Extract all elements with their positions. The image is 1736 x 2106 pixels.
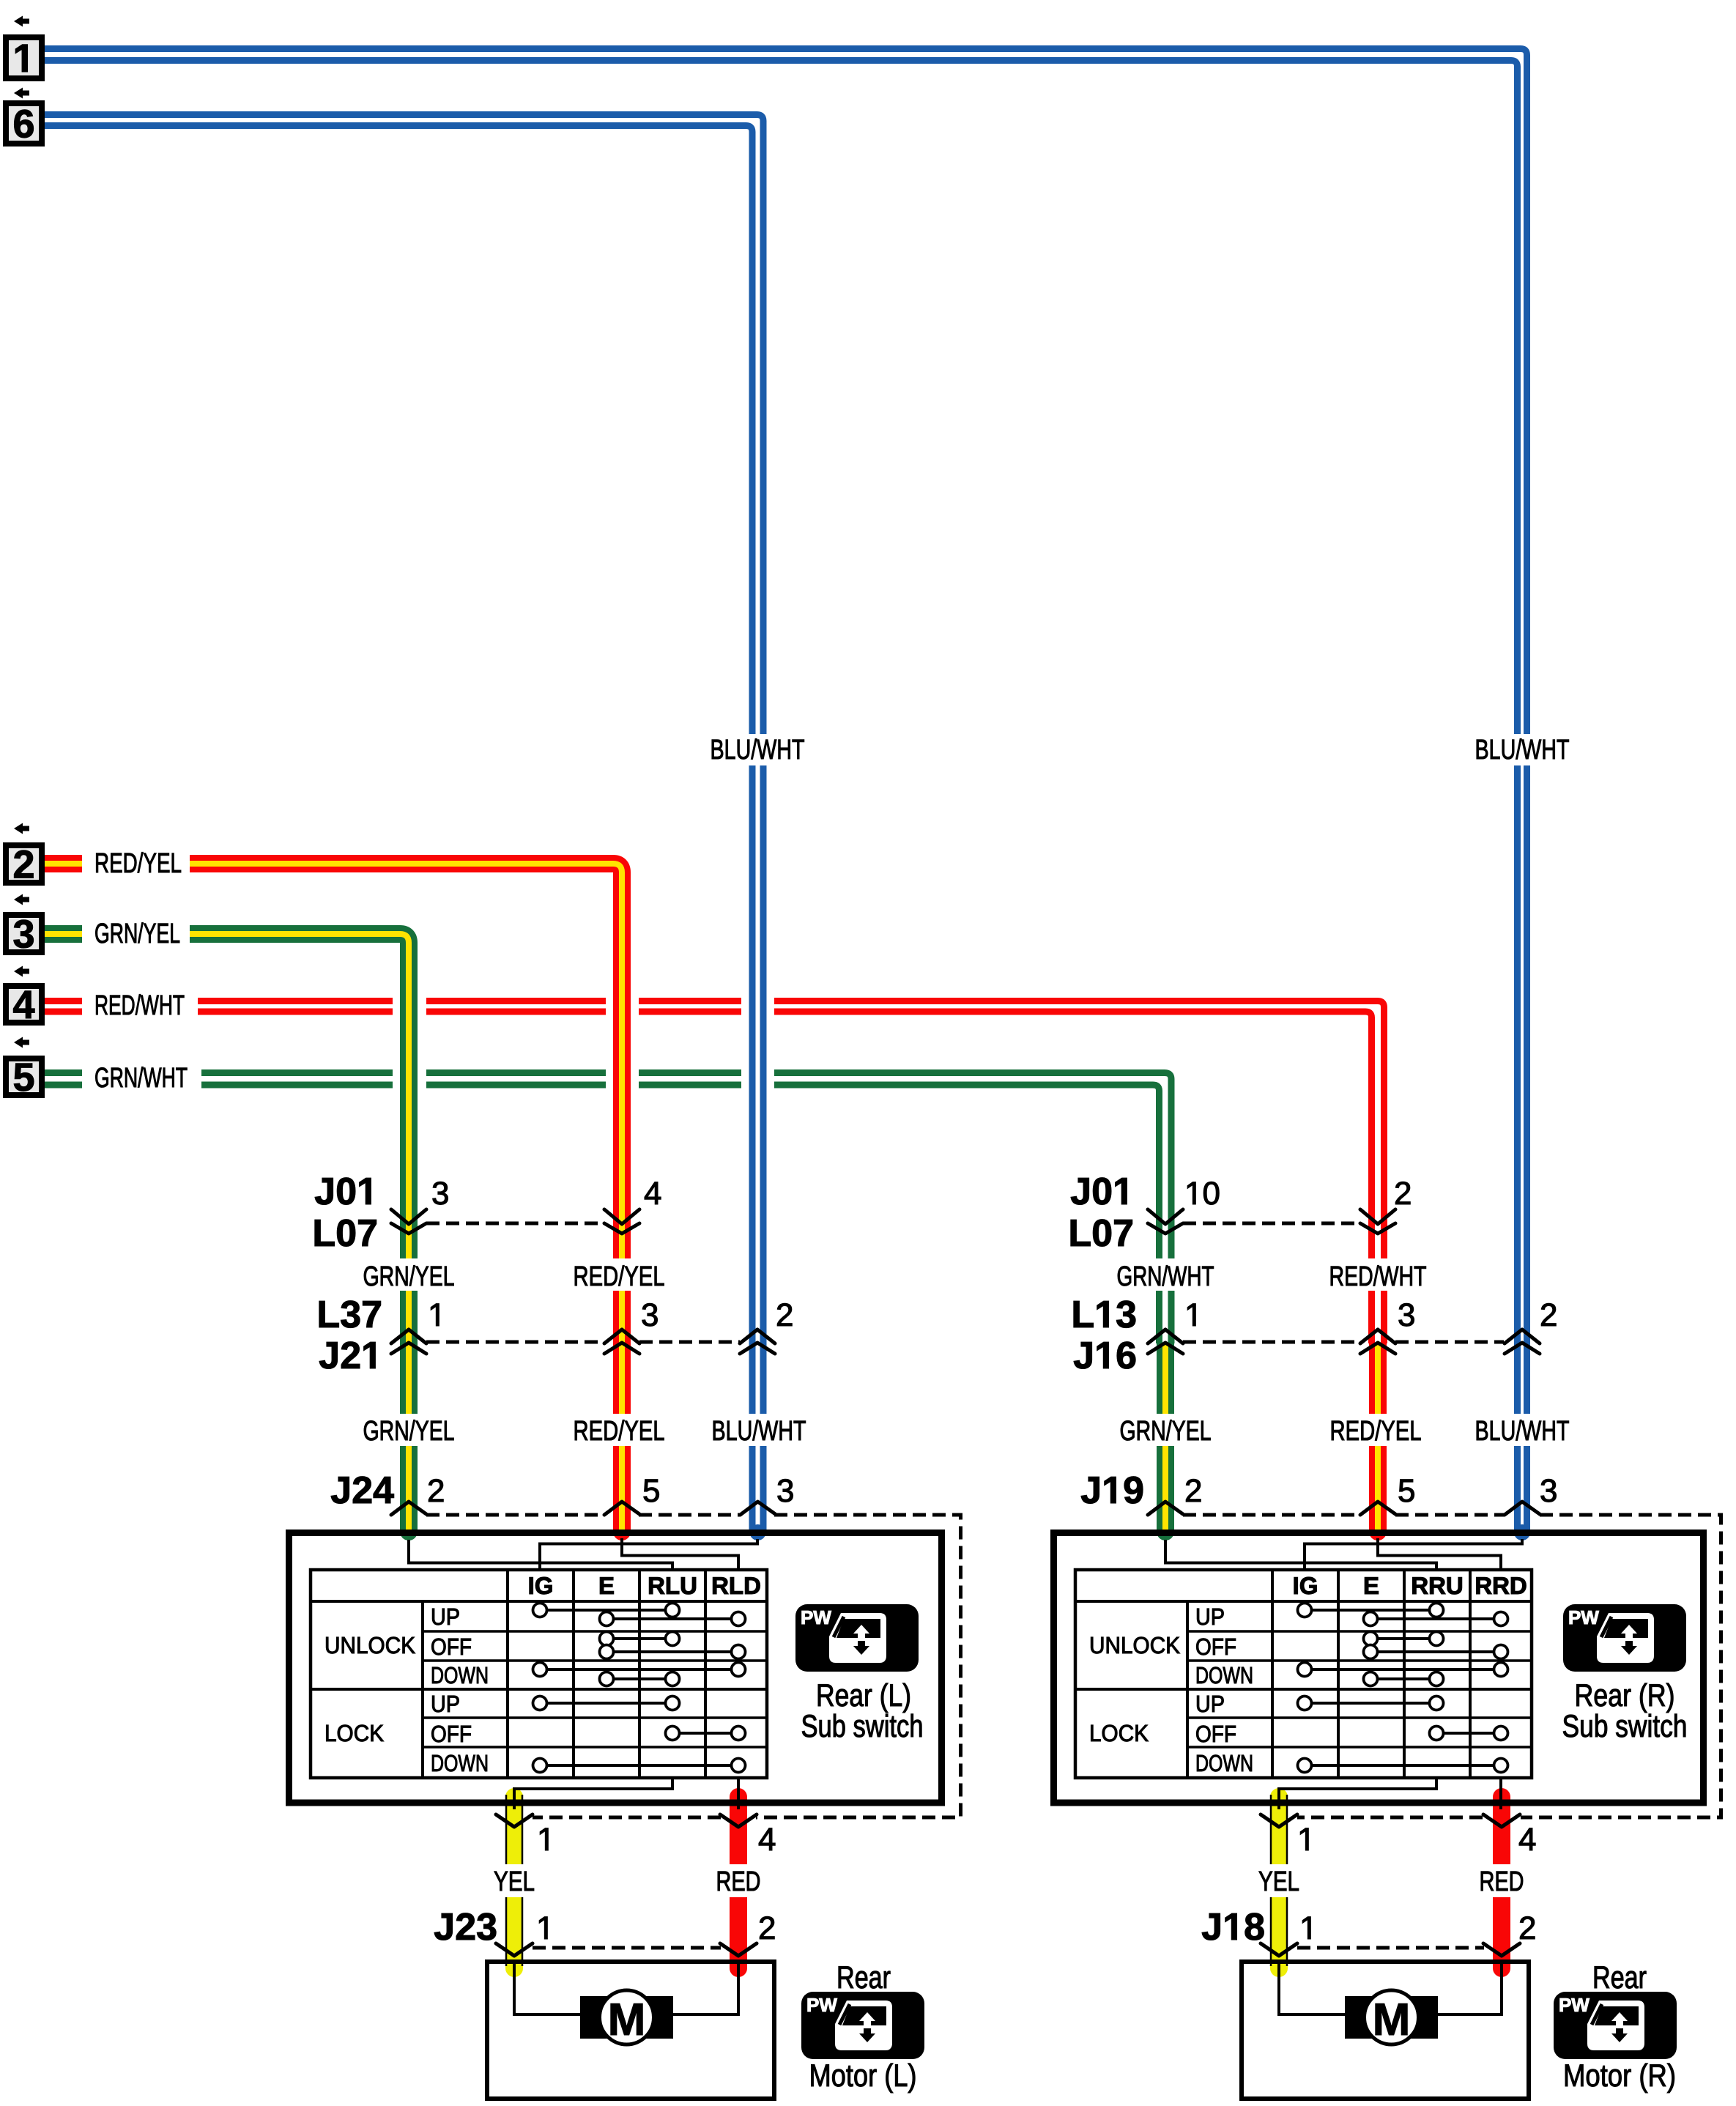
connector J18 dashed line	[1297, 1946, 1484, 1950]
label J21	[319, 1342, 375, 1369]
pin 10 J01/L07 GRN/WHT	[1187, 1182, 1219, 1204]
wire RED (Rear L sub switch pin 4 to motor L pin 2)	[730, 1788, 747, 1806]
pin 2 J24	[429, 1479, 443, 1502]
pin 5 J24	[644, 1480, 659, 1502]
label BLU/WHT on wire 6	[712, 738, 804, 759]
label BLU/WHT on wire 1	[1477, 738, 1569, 759]
routing GRN/YEL pin2 to RLU column (left)	[409, 1540, 672, 1570]
label RED/YEL below J01/L07	[575, 1265, 664, 1286]
arrow above connector box 2	[14, 823, 29, 834]
label RED/WHT at box 4	[96, 994, 184, 1015]
label Rear (motor R)	[1595, 1966, 1647, 1988]
pin 1 below Rear R switch	[1300, 1828, 1308, 1850]
wire YEL (Rear R sub switch pin 1 to motor R pin 1)	[1270, 1788, 1288, 1806]
chevrons J01/L07 left on GRN/YEL	[391, 1209, 426, 1224]
pin 1 L37/J21	[431, 1304, 439, 1326]
label J19	[1081, 1477, 1143, 1504]
pin 2 J18	[1520, 1916, 1535, 1939]
label L37	[319, 1301, 381, 1328]
pin 1 L13/J16	[1187, 1304, 1195, 1326]
label RED (left)	[718, 1872, 760, 1891]
label J24	[331, 1477, 394, 1504]
chevrons J01/L07 right on GRN/WHT	[1148, 1209, 1183, 1224]
pin 2 L37/J21	[777, 1303, 792, 1326]
label RED/YEL below L13/J16	[1332, 1420, 1421, 1440]
PW power-window icon (Rear motor R)	[1554, 1992, 1677, 2059]
arrow above connector box 6	[14, 88, 29, 99]
wire RED/YEL (L13/J16 to Rear R sub switch pin 5)	[1369, 1343, 1387, 1414]
connector box 6	[6, 103, 42, 144]
label RED/WHT below J01/L07	[1331, 1265, 1426, 1286]
connector box 4	[6, 986, 42, 1023]
label L07 left	[315, 1220, 376, 1247]
label J23	[434, 1913, 496, 1940]
chevron J24 pin 5	[604, 1502, 639, 1515]
chevron J24 pin 3	[741, 1502, 776, 1515]
chevron J19 pin 2	[1148, 1502, 1183, 1515]
connector box 1	[6, 37, 42, 78]
label RED/YEL below L37/J21	[575, 1420, 664, 1440]
chevrons L13/J16 on RED wire	[1360, 1330, 1395, 1343]
connector J23 dashed line	[533, 1946, 721, 1950]
chevron sub switch R pin 1	[1261, 1814, 1297, 1827]
wire RED (Rear R sub switch pin 4 to motor R pin 2)	[1493, 1788, 1510, 1806]
chevrons J01/L07 left on RED/YEL	[604, 1209, 639, 1224]
chevron J23 pin 2	[720, 1943, 757, 1956]
label YEL (left)	[494, 1872, 534, 1891]
chevrons L37/J21 on RED/YEL	[604, 1330, 639, 1343]
motor M symbol	[1345, 1996, 1438, 2039]
chevron J18 pin 2	[1483, 1943, 1520, 1956]
routing RRD column to RED wire (right)	[1499, 1778, 1502, 1809]
chevron sub switch L pin 1	[496, 1814, 533, 1827]
chevrons L13/J16 on GRN wire	[1148, 1330, 1183, 1343]
PW power-window icon (Rear motor L)	[801, 1992, 924, 2059]
label J01 right	[1071, 1178, 1127, 1205]
label Rear (L)	[818, 1683, 910, 1713]
chevrons L13/J16 on BLU/WHT	[1505, 1330, 1540, 1343]
label BLU/WHT below L37/J21	[713, 1420, 806, 1440]
connector box 2	[6, 845, 42, 883]
routing BLU/WHT pin3 to IG column (right)	[1305, 1539, 1522, 1570]
wire 1 BLU/WHT (box 1 to Rear R sub switch pin 3)	[45, 49, 1527, 735]
motor M symbol	[580, 1996, 673, 2039]
chevron J19 pin 3	[1505, 1502, 1540, 1515]
Rear Motor (L) box	[487, 1962, 774, 2099]
chevron sub switch L pin 4	[720, 1814, 757, 1827]
switch contacts	[540, 1609, 672, 1612]
label Sub switch (L)	[802, 1714, 921, 1738]
chevron J24 pin 2	[391, 1502, 426, 1515]
pin 4 J01/L07 RED/YEL	[645, 1182, 661, 1204]
switch contact table at x=424	[311, 1570, 767, 1778]
label GRN/YEL below J01/L07	[364, 1265, 454, 1286]
label GRN/WHT at box 5	[95, 1067, 187, 1087]
pin 2 J23	[760, 1916, 774, 1939]
label RED (right)	[1481, 1872, 1523, 1891]
label GRN/WHT below J01/L07	[1118, 1265, 1214, 1286]
pin 3 L37/J21	[642, 1303, 658, 1326]
connector J19 dashed boundary	[1183, 1515, 1721, 1817]
arrow above connector box 3	[14, 894, 29, 905]
routing RED/YEL pin5 to RRD column (right)	[1378, 1538, 1501, 1570]
Rear Motor (R) box	[1242, 1962, 1529, 2099]
label Rear (R)	[1576, 1683, 1673, 1713]
motor L wiring from RED	[673, 1960, 738, 2014]
chevrons J01/L07 right on RED/WHT	[1360, 1209, 1395, 1224]
wire 3 GRN/YEL (box 3 to Rear L sub switch pin 2)	[45, 925, 82, 943]
arrow above connector box 5	[14, 1037, 29, 1048]
motor R wiring from RED	[1436, 1960, 1502, 2014]
label Motor (L)	[811, 2064, 915, 2093]
PW power-window icon (Rear R sub switch)	[1563, 1604, 1686, 1672]
wire 5 GRN/WHT (box 5 to L13/J16)	[45, 1069, 82, 1076]
routing BLU/WHT pin3 to IG column (left)	[540, 1539, 757, 1570]
wire 4 RED/WHT (box 4 to L13/J16)	[45, 998, 82, 1004]
motor L wiring from YEL	[514, 1960, 580, 2014]
switch contact table at x=1468	[1075, 1570, 1532, 1778]
label L07 right	[1071, 1220, 1132, 1247]
pin 5 J19	[1399, 1480, 1414, 1502]
pin 4 below Rear L switch	[759, 1828, 775, 1850]
switch contacts	[1305, 1609, 1436, 1612]
label Rear (motor L)	[839, 1966, 891, 1988]
pin 3 L13/J16	[1399, 1303, 1414, 1326]
pin 3 J01/L07 GRN/YEL	[433, 1182, 448, 1204]
motor R wiring from YEL	[1279, 1960, 1345, 2014]
routing RLU column to YEL wire (left)	[514, 1778, 672, 1809]
pin 1 J23	[539, 1917, 547, 1939]
label L13	[1074, 1301, 1135, 1328]
wire 6 BLU/WHT (box 6 to Rear L sub switch pin 3)	[45, 115, 763, 735]
Rear (L) sub switch box	[289, 1533, 942, 1803]
label GRN/YEL below L13/J16	[1121, 1420, 1211, 1440]
routing RLD column to RED wire (left)	[737, 1778, 740, 1809]
wire YEL (Rear L sub switch pin 1 to motor L pin 1)	[505, 1788, 523, 1806]
pin 3 J24	[778, 1479, 793, 1502]
chevron J19 pin 5	[1360, 1502, 1395, 1515]
label J18	[1202, 1913, 1264, 1940]
label Motor (R)	[1565, 2064, 1674, 2093]
label J01 left	[315, 1178, 371, 1205]
label J16	[1074, 1342, 1135, 1369]
pin 2 J19	[1186, 1479, 1201, 1502]
chevrons L37/J21 on GRN/YEL	[391, 1330, 426, 1343]
label RED/YEL at box 2	[96, 852, 181, 872]
chevron sub switch R pin 4	[1483, 1814, 1520, 1827]
chevron J18 pin 1	[1261, 1943, 1297, 1956]
pin 2 L13/J16	[1541, 1303, 1556, 1326]
pin 2 J01/L07 RED/WHT	[1395, 1182, 1410, 1204]
PW power-window icon (Rear L sub switch)	[795, 1604, 919, 1672]
routing RED/YEL pin5 to RLD column (left)	[622, 1538, 738, 1570]
routing RRU column to YEL wire (right)	[1279, 1778, 1436, 1809]
connector box 5	[6, 1058, 42, 1095]
wire 2 RED/YEL (box 2 to Rear L sub switch pin 5)	[45, 855, 82, 872]
label BLU/WHT below L13/J16	[1477, 1420, 1569, 1440]
Rear (R) sub switch box	[1054, 1533, 1704, 1803]
connector L13/J16 dashed line	[1183, 1341, 1504, 1344]
pin 1 J18	[1302, 1917, 1310, 1939]
connector box 3	[6, 915, 42, 952]
arrow above connector box 1	[14, 16, 29, 27]
wire GRN/YEL (L13/J16 to Rear R sub switch pin 2)	[1157, 1343, 1174, 1414]
label GRN/YEL at box 3	[95, 922, 179, 943]
pin 3 J19	[1541, 1479, 1557, 1502]
label GRN/YEL below L37/J21	[364, 1420, 454, 1440]
chevron J23 pin 1	[496, 1943, 533, 1956]
connector J01/L07 left dashed line	[426, 1222, 605, 1226]
connector J01/L07 right dashed line	[1183, 1222, 1361, 1226]
label YEL (right)	[1259, 1872, 1299, 1891]
pin 4 below Rear R switch	[1519, 1828, 1535, 1850]
chevrons L37/J21 on BLU/WHT	[740, 1330, 775, 1343]
pin 1 below Rear L switch	[540, 1828, 548, 1850]
routing GRN/YEL pin2 to RRU column (right)	[1165, 1540, 1436, 1570]
label Sub switch (R)	[1563, 1714, 1685, 1738]
connector J24 dashed boundary	[426, 1515, 961, 1817]
arrow above connector box 4	[14, 966, 29, 977]
connector L37/J21 dashed line	[426, 1341, 740, 1344]
